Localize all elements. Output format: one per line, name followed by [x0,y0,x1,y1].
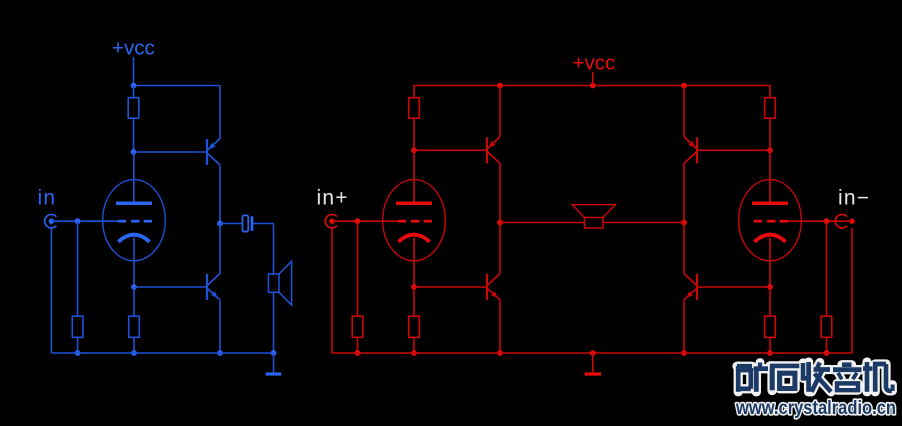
svg-text:in: in [38,187,57,210]
svg-text:in+: in+ [317,187,349,210]
svg-text:in−: in− [838,187,870,210]
svg-text:www.crystalradio.cn: www.crystalradio.cn [735,398,896,419]
svg-text:+vcc: +vcc [573,52,616,75]
svg-text:+vcc: +vcc [112,37,155,60]
